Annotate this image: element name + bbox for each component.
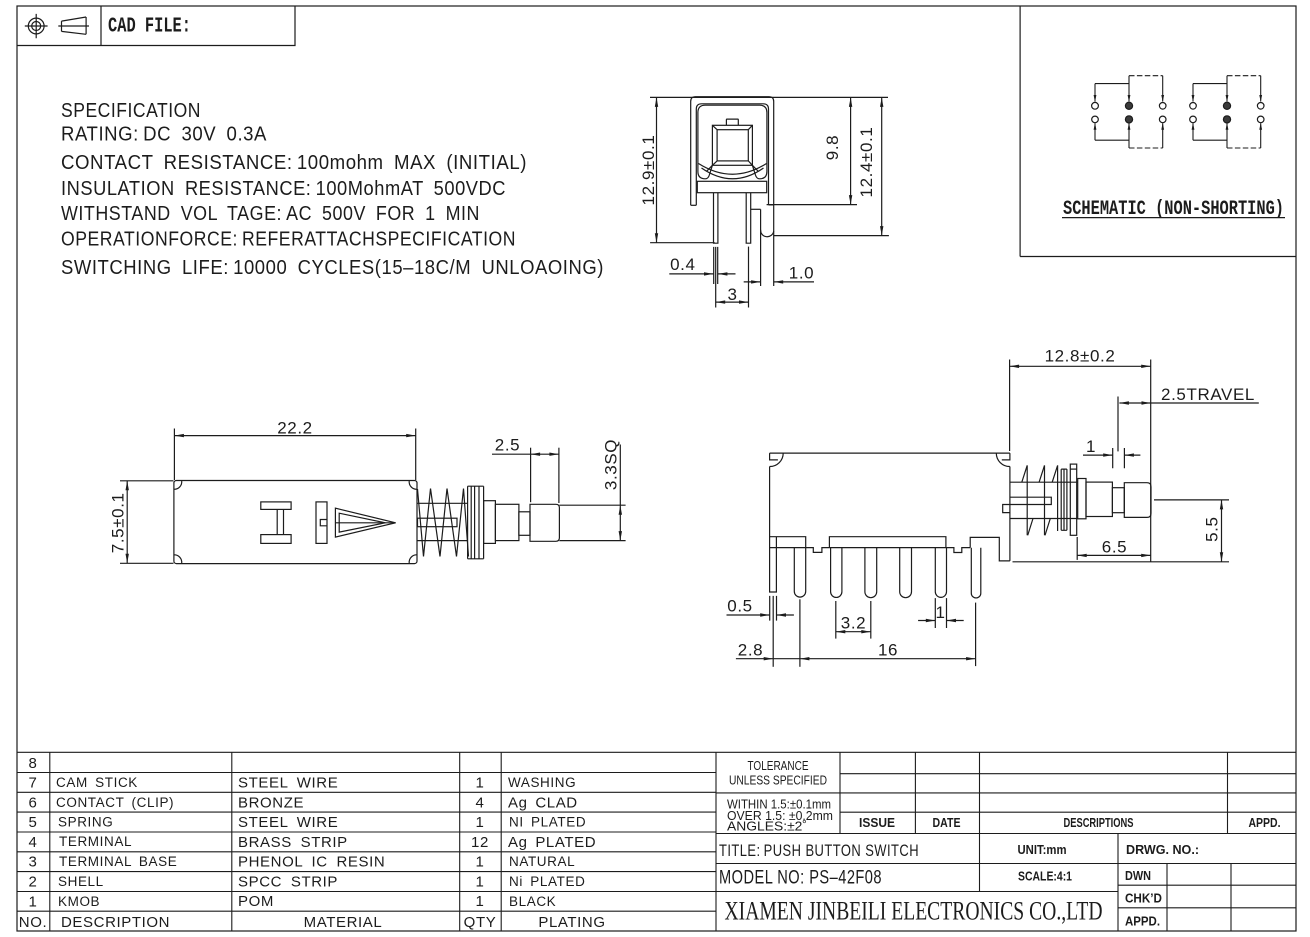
svg-text:1: 1	[476, 854, 485, 871]
contact L2	[1092, 116, 1099, 123]
svg-text:DRWG. NO.:: DRWG. NO.:	[1126, 842, 1199, 857]
pin1 center ext	[799, 599, 801, 667]
svg-text:3.3SQ: 3.3SQ	[602, 439, 621, 490]
svg-text:BLACK: BLACK	[509, 894, 556, 909]
svg-text:1: 1	[1086, 437, 1096, 456]
cam arc inner	[702, 168, 764, 179]
dim 1 pin5 line	[918, 620, 964, 622]
svg-text:SWITCHING LIFE: 10000 CYCLES(1: SWITCHING LIFE: 10000 CYCLES(15–18C/M UN…	[61, 257, 604, 279]
shaft step 1	[1078, 479, 1086, 519]
svg-text:NATURAL: NATURAL	[509, 854, 575, 869]
svg-text:XIAMEN JINBEILI ELECTRONICS CO: XIAMEN JINBEILI ELECTRONICS CO.,LTD	[725, 897, 1103, 926]
contact M2 common	[1125, 116, 1132, 123]
svg-text:12.4±0.1: 12.4±0.1	[857, 127, 876, 198]
svg-text:WASHING: WASHING	[508, 775, 576, 790]
svg-text:TERMINAL: TERMINAL	[59, 834, 132, 849]
cam bar	[418, 518, 458, 527]
dim 9.8 extension	[767, 204, 857, 206]
shaft neck	[1112, 488, 1124, 513]
dim 7.5 line	[126, 481, 128, 564]
svg-text:BRASS STRIP: BRASS STRIP	[238, 834, 348, 851]
svg-text:8: 8	[29, 755, 38, 772]
svg-text:1: 1	[476, 874, 485, 891]
keycap skirt flares	[706, 165, 758, 171]
dim 12.4 extension	[774, 235, 889, 237]
arrows unit 2	[1192, 95, 1195, 102]
contact L1 u2	[1190, 103, 1197, 110]
pin 4	[900, 548, 912, 598]
schematic box bottom wall	[1020, 256, 1296, 258]
svg-text:STEEL WIRE: STEEL WIRE	[238, 814, 338, 831]
pin 1	[794, 548, 805, 598]
svg-text:APPD.: APPD.	[1249, 815, 1281, 830]
svg-text:DESCRIPTIONS: DESCRIPTIONS	[1064, 815, 1134, 830]
dim 12.9 extension bottom	[650, 242, 715, 244]
cavity outline	[698, 105, 767, 160]
cavity right foot	[752, 160, 767, 179]
pin 2	[831, 548, 842, 598]
svg-text:KMOB: KMOB	[58, 894, 100, 909]
wire left top	[1192, 84, 1194, 102]
dim 2.5 ext left	[530, 448, 532, 503]
I-beam bottom flange	[261, 535, 291, 544]
svg-text:7: 7	[29, 775, 38, 792]
svg-text:5.5: 5.5	[1203, 516, 1222, 541]
svg-text:9.8: 9.8	[823, 135, 842, 160]
svg-text:3.2: 3.2	[841, 614, 866, 633]
pin2 center ext	[835, 601, 837, 639]
keycap top tab	[726, 119, 738, 125]
svg-text:Ni PLATED: Ni PLATED	[509, 874, 585, 889]
corner notch right	[1002, 453, 1010, 460]
title block verticals lower	[980, 834, 1232, 932]
svg-text:4: 4	[29, 834, 38, 851]
wire mid bottom	[1226, 123, 1228, 148]
contact R2	[1159, 116, 1166, 123]
wire right top	[1162, 76, 1164, 102]
shell inner outline	[696, 104, 768, 206]
svg-text:TOLERANCE: TOLERANCE	[748, 758, 809, 773]
BOM table grid horizontals	[17, 752, 1296, 911]
arrows front view	[655, 97, 658, 107]
svg-text:UNIT:mm: UNIT:mm	[1018, 842, 1067, 857]
pin 5	[935, 548, 946, 598]
svg-text:5: 5	[29, 814, 38, 831]
svg-text:PHENOL IC RESIN: PHENOL IC RESIN	[238, 854, 385, 871]
svg-text:3: 3	[727, 285, 737, 304]
dim 3.3SQ line	[619, 445, 621, 541]
wire mid top	[1128, 76, 1130, 102]
body right wall	[1009, 467, 1011, 561]
svg-text:SHELL: SHELL	[58, 874, 104, 889]
shaft step 1	[484, 501, 496, 544]
svg-text:INSULATION RESISTANCE: 100Mohm: INSULATION RESISTANCE: 100MohmAT 500VDC	[61, 178, 506, 200]
corner notch left	[770, 453, 778, 460]
shell right leg cap	[769, 204, 774, 206]
slider bar	[316, 502, 327, 544]
svg-text:DESCRIPTION: DESCRIPTION	[61, 914, 170, 931]
dim 6.5 ext left	[1076, 537, 1078, 560]
svg-text:6: 6	[29, 795, 38, 812]
corner relief BL	[174, 555, 182, 563]
svg-text:NI PLATED: NI PLATED	[509, 815, 586, 830]
wire mid top	[1226, 76, 1228, 102]
pin section lines 0.4	[714, 247, 718, 308]
shaft step 2	[1086, 482, 1112, 516]
svg-text:SCALE:4:1: SCALE:4:1	[1018, 869, 1072, 884]
top extension line	[650, 96, 888, 98]
dim 0.4 line	[669, 273, 735, 275]
wire left top	[1094, 84, 1096, 102]
svg-text:6.5: 6.5	[1102, 538, 1127, 557]
title strip box	[17, 6, 295, 46]
svg-text:CONTACT RESISTANCE: 100mohm MA: CONTACT RESISTANCE: 100mohm MAX (INITIAL…	[61, 152, 527, 174]
wire top dashed M-R	[1227, 75, 1261, 77]
svg-text:1: 1	[476, 775, 485, 792]
pin6 center ext	[975, 603, 977, 667]
wire bottom dashed M-R	[1227, 147, 1261, 149]
shaft neck	[519, 512, 530, 536]
wire top solid L-M	[1095, 83, 1129, 85]
arrows side view	[1010, 365, 1020, 368]
wire right top	[1260, 76, 1262, 102]
pin3 center ext	[870, 601, 872, 639]
body left wall and flat pin	[770, 467, 777, 593]
svg-text:ANGLES:±2˚: ANGLES:±2˚	[727, 820, 807, 834]
svg-text:SPECIFICATION: SPECIFICATION	[61, 100, 201, 122]
pin 6	[971, 548, 981, 598]
plunger shaft lines	[1010, 482, 1077, 518]
dim 22.2 line	[174, 435, 415, 437]
wire top solid L-M	[1193, 83, 1227, 85]
title block verticals upper	[840, 752, 1228, 833]
bracket centerline ext	[772, 596, 774, 667]
dim 5.5 line	[1221, 500, 1223, 562]
dim 3.2 line	[836, 631, 871, 633]
pointer triangle outer	[335, 508, 395, 537]
shell left leg cap	[691, 204, 697, 206]
svg-text:SPCC STRIP: SPCC STRIP	[238, 874, 338, 891]
wire bottom solid L-M	[1193, 139, 1227, 141]
svg-text:22.2: 22.2	[277, 419, 313, 438]
contact L1	[1092, 102, 1099, 109]
svg-text:ISSUE: ISSUE	[859, 815, 895, 830]
spring coils	[418, 489, 469, 557]
I-beam top flange	[261, 502, 291, 510]
svg-text:1: 1	[476, 893, 485, 910]
svg-text:12: 12	[471, 834, 489, 851]
dim 7.5 ext bottom	[120, 562, 174, 564]
svg-text:UNLESS SPECIFIED: UNLESS SPECIFIED	[729, 773, 827, 788]
contact R2 u2	[1257, 116, 1264, 123]
svg-text:1.0: 1.0	[789, 264, 814, 283]
right bracket step	[751, 208, 761, 210]
dim 0.5 line	[727, 614, 794, 616]
svg-text:DWN: DWN	[1125, 868, 1151, 883]
travel underline	[1151, 402, 1259, 404]
BOM table grid verticals	[50, 752, 716, 931]
travel ext	[1117, 397, 1119, 452]
base bottom line with notches	[770, 548, 971, 553]
svg-text:APPD.: APPD.	[1125, 914, 1160, 929]
dim 2.5 line	[492, 453, 559, 455]
I-beam web	[277, 509, 283, 534]
dim 2.8 and 16 line	[736, 658, 976, 660]
svg-text:1: 1	[476, 814, 485, 831]
strip divider	[100, 6, 102, 46]
spring coil slants bottom	[1028, 519, 1051, 536]
left foot ledge	[770, 537, 806, 548]
shell outer outline	[691, 97, 774, 206]
corner relief TL	[174, 481, 182, 489]
cavity left foot	[698, 160, 713, 179]
plunger shaft lines	[417, 503, 468, 540]
pointer triangle inner	[339, 513, 385, 532]
svg-text:1: 1	[29, 894, 38, 911]
dim 12.9 line	[656, 97, 658, 242]
contact R1	[1159, 103, 1166, 110]
corner relief BR	[409, 555, 417, 563]
wire mid bottom	[1128, 123, 1130, 148]
corner relief TR	[409, 481, 417, 489]
contact M1 common u2	[1223, 102, 1230, 109]
corner arc left	[770, 453, 784, 466]
svg-text:CAM STICK: CAM STICK	[56, 775, 138, 790]
arrows unit 1	[1094, 95, 1097, 102]
pin5 edge ext lines	[935, 598, 946, 628]
svg-text:POM: POM	[238, 893, 274, 910]
title block row lines upper	[716, 774, 1296, 834]
schematic title underline	[1062, 217, 1285, 219]
svg-text:QTY: QTY	[464, 914, 497, 931]
svg-text:4: 4	[476, 795, 485, 812]
contact M1 common	[1125, 102, 1132, 109]
dim 9.8 line	[850, 97, 852, 204]
svg-text:TITLE: PUSH BUTTON SWITCH: TITLE: PUSH BUTTON SWITCH	[719, 841, 919, 860]
svg-text:CAD FILE:: CAD FILE:	[108, 16, 191, 39]
cam arc outer	[699, 164, 767, 175]
svg-text:2: 2	[29, 874, 38, 891]
left pin	[714, 193, 718, 244]
right foot block	[970, 537, 1010, 561]
svg-text:2.5TRAVEL: 2.5TRAVEL	[1161, 386, 1255, 404]
svg-text:MODEL NO: PS–42F08: MODEL NO: PS–42F08	[719, 868, 882, 889]
svg-text:STEEL WIRE: STEEL WIRE	[238, 775, 338, 792]
dim 5.5 ext top	[1154, 499, 1229, 501]
svg-text:16: 16	[878, 641, 898, 660]
dim 2.5 ext right	[558, 448, 560, 503]
shaft step 2	[495, 504, 519, 540]
contact M2 common u2	[1223, 116, 1230, 123]
wire right bottom	[1162, 123, 1164, 148]
dim 22.2 ext left	[173, 429, 175, 481]
pin 3	[865, 548, 877, 598]
wire top dashed M-R	[1129, 75, 1163, 77]
svg-text:1: 1	[935, 603, 945, 622]
dim 12.8 ext left	[1009, 360, 1011, 452]
base plate	[697, 181, 766, 192]
svg-text:12.9±0.1: 12.9±0.1	[639, 135, 658, 206]
svg-text:OPERATIONFORCE: REFERATTACHSPE: OPERATIONFORCE: REFERATTACHSPECIFICATION	[61, 229, 516, 251]
washer thin plates	[1061, 469, 1067, 530]
spring coil verticals	[1027, 465, 1057, 535]
svg-text:SPRING: SPRING	[58, 815, 113, 830]
svg-text:CONTACT (CLIP): CONTACT (CLIP)	[56, 795, 174, 810]
svg-text:CHK’D: CHK’D	[1125, 891, 1162, 906]
terminal base plate	[829, 537, 946, 548]
right bracket hook arc	[761, 230, 774, 237]
dim 12.8 ext right long	[1150, 360, 1152, 562]
wire left bottom	[1192, 123, 1194, 140]
svg-text:WITHSTAND VOL TAGE: AC 500V FO: WITHSTAND VOL TAGE: AC 500V FOR 1 MIN	[61, 203, 480, 225]
keycap bevels	[712, 125, 752, 165]
right bracket right edge	[773, 205, 775, 286]
washer big plate inner line	[1070, 468, 1076, 470]
schematic box left wall	[1019, 6, 1021, 257]
svg-text:RATING: DC 30V 0.3A: RATING: DC 30V 0.3A	[61, 124, 267, 146]
svg-text:MATERIAL: MATERIAL	[304, 914, 383, 931]
dim 1.0 line	[744, 281, 814, 283]
svg-text:TERMINAL BASE: TERMINAL BASE	[59, 854, 177, 869]
dim 1 ext lines	[1113, 448, 1125, 468]
dim 0.5 ext lines	[770, 596, 777, 621]
dim 22.2 ext right	[415, 429, 417, 481]
dim 1 line	[1083, 454, 1140, 456]
dim 5.5 ext bottom	[1013, 561, 1230, 563]
slider notch	[320, 520, 326, 526]
title block row lines lower	[716, 864, 1296, 908]
right bracket left edge	[760, 209, 762, 286]
body top edge	[770, 452, 1010, 454]
contact R1 u2	[1257, 103, 1264, 110]
travel dim line	[1119, 402, 1151, 404]
wire left bottom	[1094, 123, 1096, 140]
svg-text:2.8: 2.8	[738, 641, 763, 660]
right pin	[746, 193, 751, 244]
projection symbol: cone view	[58, 17, 89, 34]
arrows top view	[174, 434, 184, 437]
dim 12.4 line	[881, 97, 883, 235]
knob end cap	[1124, 483, 1151, 518]
dim 12.8 line	[1010, 365, 1151, 367]
corner arc right	[996, 453, 1010, 466]
dim 3 right ext	[748, 247, 750, 308]
spring coil slants top	[1022, 465, 1058, 482]
keycap inner square	[717, 130, 748, 161]
svg-text:BRONZE: BRONZE	[238, 795, 304, 812]
dim 3.3SQ ext bottom	[559, 540, 625, 542]
projection symbol: target circle	[25, 14, 48, 38]
svg-text:Ag CLAD: Ag CLAD	[508, 795, 578, 812]
svg-text:7.5±0.1: 7.5±0.1	[109, 492, 128, 553]
svg-text:0.4: 0.4	[670, 255, 695, 274]
knob end cap	[530, 504, 559, 541]
svg-text:2.5: 2.5	[495, 436, 520, 455]
wire bottom dashed M-R	[1129, 147, 1163, 149]
svg-text:12.8±0.2: 12.8±0.2	[1045, 347, 1116, 366]
dim 3 line	[716, 301, 749, 303]
svg-text:NO.: NO.	[19, 914, 47, 931]
cam bar	[1010, 497, 1051, 504]
washer big plate	[1070, 464, 1076, 535]
body outline	[174, 481, 417, 564]
dim 7.5 ext top	[120, 480, 174, 482]
svg-text:DATE: DATE	[933, 815, 961, 830]
contact L2 u2	[1190, 116, 1197, 123]
keycap outer square	[712, 125, 752, 165]
pointer median	[335, 522, 395, 524]
wire right bottom	[1260, 123, 1262, 148]
svg-text:PLATING: PLATING	[538, 914, 605, 931]
dim 6.5 line	[1077, 554, 1151, 556]
schematic unit 2	[1193, 76, 1261, 148]
washer plates	[468, 486, 484, 559]
dim 3.3SQ ext top	[559, 504, 625, 506]
svg-text:0.5: 0.5	[727, 597, 752, 616]
specification text block	[61, 100, 604, 279]
wire bottom solid L-M	[1095, 139, 1129, 141]
cam bar left tab	[1003, 505, 1011, 513]
schematic unit 1	[1095, 76, 1163, 148]
svg-text:3: 3	[29, 854, 38, 871]
svg-text:Ag PLATED: Ag PLATED	[508, 834, 596, 851]
